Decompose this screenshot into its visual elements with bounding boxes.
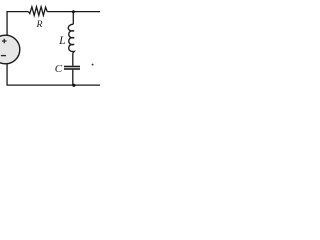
capacitor C1 top plate [64, 66, 80, 68]
wire top: resistor to right edge through top node [47, 11, 101, 13]
voltage source V1 circle [0, 35, 20, 64]
wire top-left: left vertical + top horizontal lead to resistor [7, 12, 28, 36]
inductor L1 coil [68, 24, 74, 53]
wire bottom-left: source to bottom rail [7, 64, 101, 85]
svg-text:R: R [36, 19, 43, 30]
voltage source minus sign [1, 55, 6, 57]
voltage source plus sign [2, 39, 7, 43]
stray speck dot [92, 64, 94, 66]
svg-text:C: C [55, 63, 63, 75]
junction node dot top [72, 10, 75, 13]
svg-text:L: L [58, 34, 65, 47]
junction node dot bottom [72, 84, 75, 87]
wire: inductor to capacitor [72, 54, 74, 66]
resistor R1 zigzag [28, 7, 47, 16]
wire: capacitor to bottom rail [72, 70, 74, 85]
wire: top node down to inductor [72, 12, 74, 25]
capacitor C1 bottom plate [64, 68, 80, 70]
